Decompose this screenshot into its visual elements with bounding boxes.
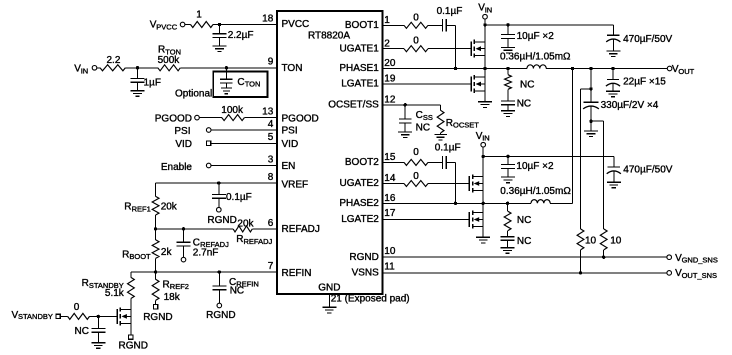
svg-text:R: R xyxy=(446,118,453,129)
svg-text:RGND: RGND xyxy=(207,215,236,226)
svg-text:PGOOD: PGOOD xyxy=(155,114,192,125)
svg-text:SS: SS xyxy=(423,113,433,122)
svg-text:OUT_SNS: OUT_SNS xyxy=(682,271,717,280)
svg-text:PHASE1: PHASE1 xyxy=(339,63,379,74)
svg-text:REFADJ: REFADJ xyxy=(244,237,273,246)
svg-text:R: R xyxy=(122,249,129,260)
svg-text:NC: NC xyxy=(517,236,531,247)
svg-text:8: 8 xyxy=(268,172,274,183)
svg-text:0: 0 xyxy=(413,147,419,158)
svg-text:EN: EN xyxy=(282,161,296,172)
svg-text:LGATE2: LGATE2 xyxy=(341,214,379,225)
svg-text:OUT: OUT xyxy=(678,67,694,76)
svg-text:4: 4 xyxy=(268,119,274,130)
svg-text:10µF ×2: 10µF ×2 xyxy=(516,161,554,172)
svg-text:PVCC: PVCC xyxy=(156,22,177,31)
svg-text:6: 6 xyxy=(268,218,274,229)
svg-text:Enable: Enable xyxy=(161,162,193,173)
svg-text:2.2: 2.2 xyxy=(107,55,121,66)
svg-text:IN: IN xyxy=(482,134,490,143)
svg-text:R: R xyxy=(158,45,165,56)
svg-text:RT8820A: RT8820A xyxy=(308,30,350,41)
svg-text:14: 14 xyxy=(384,173,396,184)
svg-text:17: 17 xyxy=(384,208,396,219)
svg-text:22µF ×15: 22µF ×15 xyxy=(623,77,666,88)
svg-text:2.2µF: 2.2µF xyxy=(228,30,254,41)
svg-text:PGOOD: PGOOD xyxy=(282,113,319,124)
svg-text:UGATE2: UGATE2 xyxy=(340,178,380,189)
svg-text:100k: 100k xyxy=(221,105,244,116)
svg-text:Optional: Optional xyxy=(175,88,212,99)
svg-text:PVCC: PVCC xyxy=(282,19,310,30)
svg-text:R: R xyxy=(163,279,170,290)
svg-text:13: 13 xyxy=(262,106,274,117)
svg-text:BOOT1: BOOT1 xyxy=(345,20,379,31)
svg-text:0.1µF: 0.1µF xyxy=(435,143,461,154)
svg-text:IN: IN xyxy=(485,5,493,14)
svg-text:10: 10 xyxy=(384,246,396,257)
svg-text:18k: 18k xyxy=(164,292,181,303)
svg-text:12: 12 xyxy=(384,95,396,106)
svg-text:9: 9 xyxy=(268,57,274,68)
svg-text:TON: TON xyxy=(245,80,261,89)
svg-text:20: 20 xyxy=(384,58,396,69)
svg-text:0: 0 xyxy=(413,36,419,47)
svg-text:3: 3 xyxy=(268,154,274,165)
svg-text:NC: NC xyxy=(517,215,531,226)
svg-text:10: 10 xyxy=(585,235,597,246)
svg-text:IN: IN xyxy=(81,66,89,75)
svg-text:RGND: RGND xyxy=(206,310,235,321)
svg-text:C: C xyxy=(237,77,244,88)
svg-text:0.1µF: 0.1µF xyxy=(437,6,463,17)
svg-text:GND: GND xyxy=(318,283,340,294)
svg-text:RGND: RGND xyxy=(143,312,172,323)
svg-text:GND_SNS: GND_SNS xyxy=(682,256,718,265)
svg-text:C: C xyxy=(416,110,423,121)
svg-text:0: 0 xyxy=(413,13,419,24)
svg-text:1: 1 xyxy=(196,9,202,20)
svg-text:0.36µH/1.05mΩ: 0.36µH/1.05mΩ xyxy=(500,51,571,62)
svg-text:10: 10 xyxy=(610,235,622,246)
svg-text:1: 1 xyxy=(384,15,390,26)
svg-text:VSNS: VSNS xyxy=(352,268,380,279)
svg-text:BOOT: BOOT xyxy=(129,252,151,261)
svg-text:18: 18 xyxy=(262,13,274,24)
svg-text:STANDBY: STANDBY xyxy=(18,312,53,321)
svg-text:2k: 2k xyxy=(161,247,173,258)
svg-text:VREF: VREF xyxy=(282,180,309,191)
svg-text:470µF/50V: 470µF/50V xyxy=(623,164,672,175)
svg-text:16: 16 xyxy=(384,193,396,204)
svg-text:PSI: PSI xyxy=(174,126,190,137)
svg-text:5: 5 xyxy=(268,132,274,143)
svg-text:0: 0 xyxy=(74,302,80,313)
svg-text:19: 19 xyxy=(384,74,396,85)
svg-text:21 (Exposed pad): 21 (Exposed pad) xyxy=(331,294,410,305)
svg-text:20k: 20k xyxy=(237,219,254,230)
svg-text:NC: NC xyxy=(520,79,534,90)
svg-text:15: 15 xyxy=(384,152,396,163)
svg-text:NC: NC xyxy=(517,99,531,110)
svg-text:PHASE2: PHASE2 xyxy=(339,198,379,209)
svg-text:LGATE1: LGATE1 xyxy=(341,79,379,90)
svg-text:NC: NC xyxy=(416,122,430,133)
svg-text:R: R xyxy=(82,278,89,289)
svg-text:330µF/2V ×4: 330µF/2V ×4 xyxy=(601,100,659,111)
svg-text:VID: VID xyxy=(282,139,299,150)
svg-text:RGND: RGND xyxy=(119,341,148,352)
svg-text:0.1µF: 0.1µF xyxy=(226,192,252,203)
svg-text:PSI: PSI xyxy=(282,126,298,137)
svg-text:VID: VID xyxy=(175,139,192,150)
svg-text:500k: 500k xyxy=(158,55,181,66)
svg-text:0.36µH/1.05mΩ: 0.36µH/1.05mΩ xyxy=(500,186,571,197)
svg-text:R: R xyxy=(124,202,131,213)
svg-text:7: 7 xyxy=(268,261,274,272)
svg-text:REFADJ: REFADJ xyxy=(282,224,320,235)
svg-text:REFIN: REFIN xyxy=(282,268,312,279)
svg-text:OCSET/SS: OCSET/SS xyxy=(328,99,379,110)
svg-text:RGND: RGND xyxy=(349,252,378,263)
svg-text:10µF ×2: 10µF ×2 xyxy=(517,31,555,42)
svg-text:20k: 20k xyxy=(161,201,178,212)
svg-text:470µF/50V: 470µF/50V xyxy=(623,34,672,45)
svg-text:OCSET: OCSET xyxy=(453,121,479,130)
svg-text:5.1k: 5.1k xyxy=(105,288,125,299)
svg-text:2.7nF: 2.7nF xyxy=(193,248,219,259)
svg-text:TON: TON xyxy=(282,63,303,74)
svg-text:11: 11 xyxy=(384,262,395,273)
svg-text:BOOT2: BOOT2 xyxy=(345,157,379,168)
svg-text:REF1: REF1 xyxy=(132,204,151,213)
svg-text:NC: NC xyxy=(230,285,244,296)
svg-text:0: 0 xyxy=(413,171,419,182)
svg-text:UGATE1: UGATE1 xyxy=(340,43,380,54)
svg-text:REF2: REF2 xyxy=(170,282,189,291)
svg-text:1µF: 1µF xyxy=(144,77,161,88)
svg-text:R: R xyxy=(236,234,243,245)
svg-text:NC: NC xyxy=(75,326,89,337)
svg-text:2: 2 xyxy=(384,38,390,49)
